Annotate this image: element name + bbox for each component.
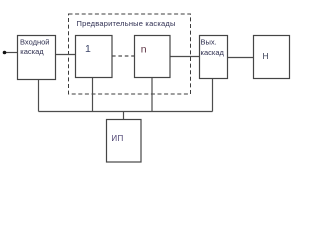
svg-text:Предварительные каскады: Предварительные каскады xyxy=(77,19,176,28)
svg-text:n: n xyxy=(141,43,147,55)
svg-text:Входной: Входной xyxy=(20,38,49,47)
svg-text:1: 1 xyxy=(85,43,91,55)
svg-text:каскад: каскад xyxy=(20,47,44,56)
svg-text:Вых.: Вых. xyxy=(201,37,217,46)
svg-text:ИП: ИП xyxy=(111,134,123,143)
svg-text:каскад: каскад xyxy=(201,48,225,57)
svg-text:Н: Н xyxy=(263,51,269,61)
